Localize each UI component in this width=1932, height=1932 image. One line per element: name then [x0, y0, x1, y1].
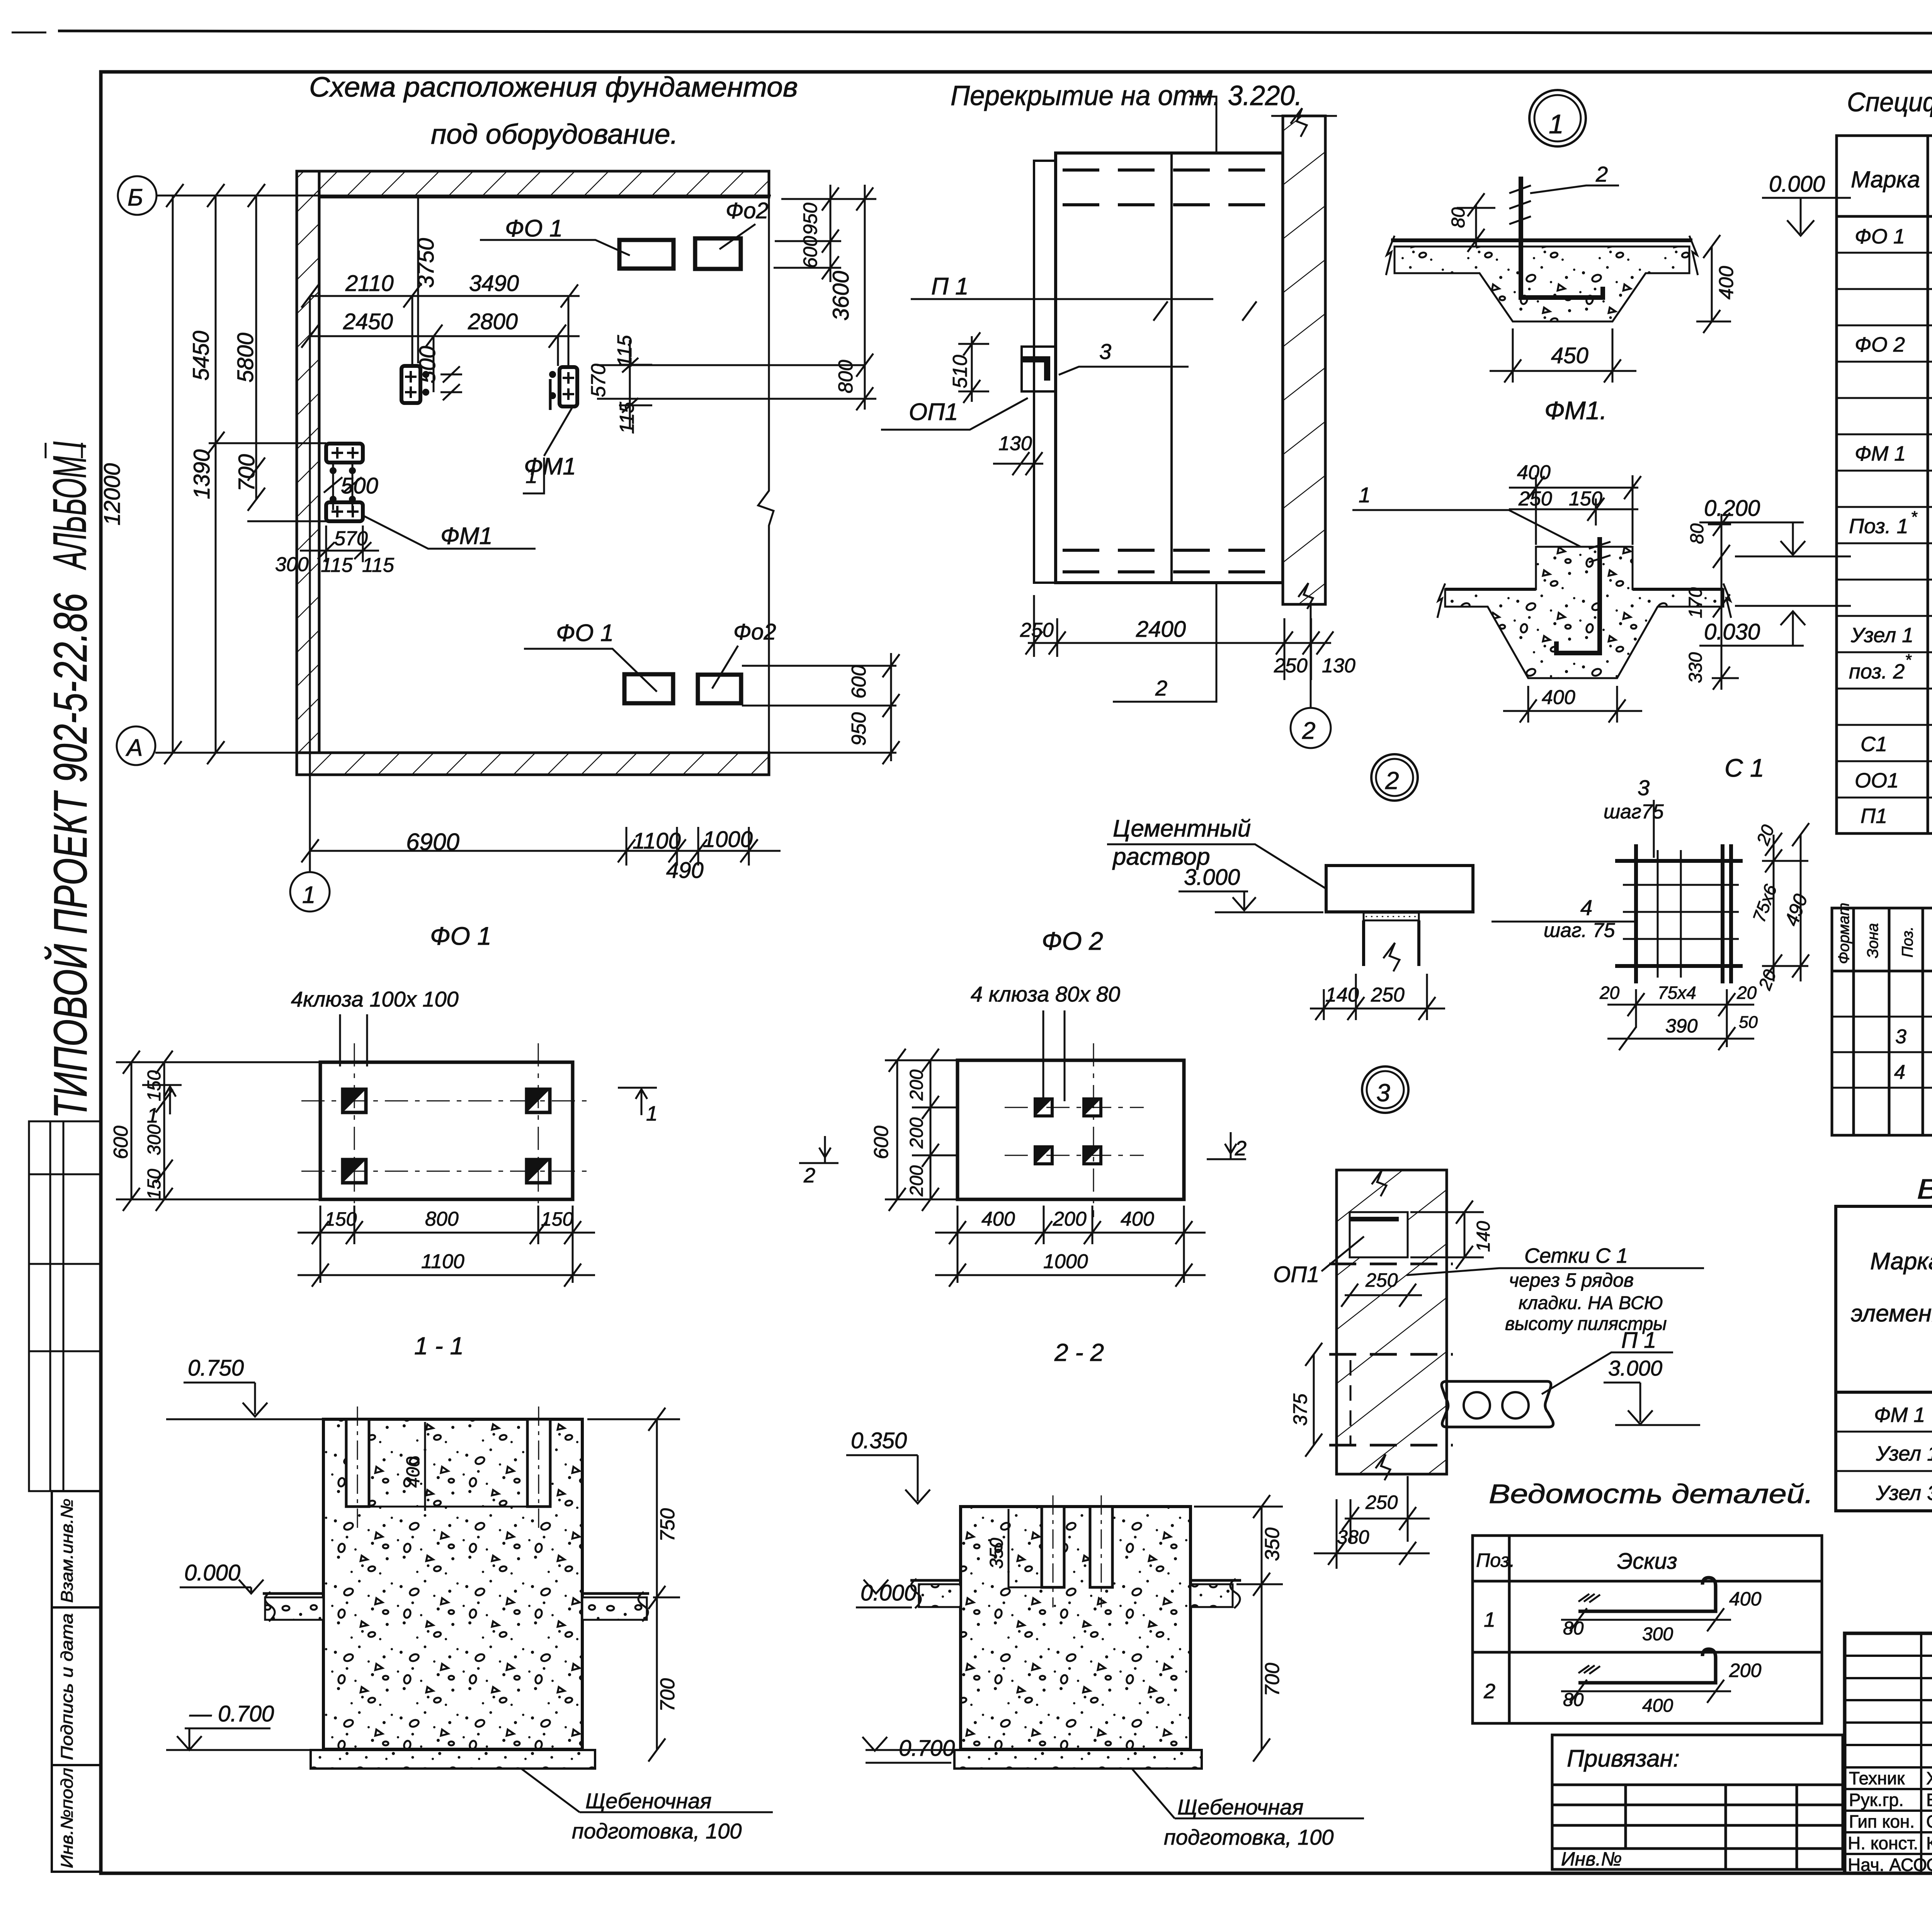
- svg-text:ОП1: ОП1: [909, 399, 958, 425]
- svg-text:Сетки С 1: Сетки С 1: [1524, 1244, 1628, 1267]
- svg-text:140: 140: [1473, 1221, 1494, 1252]
- svg-text:1390: 1390: [189, 449, 214, 499]
- svg-text:950: 950: [799, 202, 821, 235]
- svg-text:400: 400: [1642, 1696, 1673, 1716]
- svg-text:Гип кон.: Гип кон.: [1849, 1811, 1915, 1832]
- dim line 2450/2800: [301, 325, 580, 348]
- svg-text:400: 400: [1542, 686, 1575, 709]
- svg-text:1: 1: [1549, 109, 1564, 139]
- dashed mesh lines in wall: [1329, 1264, 1453, 1445]
- svg-text:2: 2: [1385, 767, 1399, 794]
- svg-text:ТИПОВОЙ ПРОЕКТ 902-5-22.86: ТИПОВОЙ ПРОЕКТ 902-5-22.86: [44, 593, 97, 1119]
- svg-text:300: 300: [1642, 1624, 1673, 1645]
- svg-text:Марка: Марка: [1851, 167, 1920, 192]
- svg-text:Техник: Техник: [1849, 1768, 1905, 1788]
- svg-text:С 1: С 1: [1725, 753, 1764, 782]
- svg-text:20: 20: [1736, 983, 1757, 1003]
- svg-text:0.030: 0.030: [1704, 619, 1760, 645]
- svg-text:375: 375: [1289, 1393, 1311, 1426]
- svg-text:400: 400: [1729, 1588, 1762, 1610]
- svg-text:250: 250: [1274, 655, 1308, 677]
- svg-text:150: 150: [144, 1070, 165, 1101]
- svg-text:Формат: Формат: [1835, 903, 1852, 964]
- concrete body 2-2: [961, 1507, 1190, 1749]
- svg-text:1: 1: [1484, 1608, 1495, 1631]
- svg-text:Нач. АСО: Нач. АСО: [1848, 1855, 1927, 1875]
- FM1 block E: [326, 444, 363, 463]
- dims left 600 200 200 200: [885, 1049, 958, 1211]
- svg-text:600: 600: [110, 1126, 132, 1159]
- svg-text:400: 400: [1715, 266, 1738, 299]
- svg-text:200: 200: [906, 1165, 927, 1197]
- dim 500 near FM1: [433, 336, 435, 392]
- svg-text:450: 450: [1551, 343, 1588, 368]
- svg-text:Цементный: Цементный: [1113, 815, 1251, 842]
- svg-text:600: 600: [870, 1126, 893, 1159]
- section trace near D: [549, 379, 552, 410]
- svg-text:ФО 1: ФО 1: [430, 922, 492, 950]
- section 2 mark bottom: [1113, 583, 1216, 702]
- svg-text:50: 50: [1739, 1013, 1758, 1032]
- dims left 600 150 300 150: [116, 1051, 321, 1211]
- svg-text:— 0.700: — 0.700: [870, 1736, 955, 1761]
- svg-text:ФМ1: ФМ1: [440, 523, 493, 549]
- svg-text:Рук.гр.: Рук.гр.: [1849, 1790, 1904, 1810]
- svg-text:250: 250: [1365, 1492, 1398, 1513]
- rebar pos1: [1556, 537, 1600, 653]
- svg-text:Ведомость деталей.: Ведомость деталей.: [1489, 1479, 1813, 1509]
- svg-text:Поз.: Поз.: [1476, 1549, 1515, 1571]
- svg-text:Зона: Зона: [1864, 923, 1881, 958]
- panel left strip: [1034, 161, 1056, 583]
- svg-text:115: 115: [616, 401, 638, 434]
- svg-text:Обух: Обух: [1926, 1811, 1932, 1832]
- svg-text:250: 250: [1365, 1269, 1398, 1291]
- node2 floor lines: [1445, 588, 1536, 591]
- svg-text:250: 250: [1371, 984, 1405, 1006]
- svg-text:ФО 2: ФО 2: [1042, 927, 1103, 955]
- bottom dim line 250 2400: [1026, 595, 1333, 680]
- svg-text:3: 3: [1376, 1079, 1390, 1107]
- svg-text:200: 200: [906, 1117, 927, 1149]
- spec2 grid: [1832, 908, 1932, 1135]
- pilaster wall hatched: [1337, 1170, 1447, 1474]
- node1 slab top thick line: [1391, 238, 1692, 242]
- svg-text:— 0.700: — 0.700: [189, 1701, 274, 1726]
- svg-text:700: 700: [234, 454, 259, 492]
- svg-text:подготовка, 100: подготовка, 100: [1164, 1825, 1334, 1849]
- axis A line: [155, 752, 896, 754]
- sketch pos2 hook bar: [1561, 1649, 1731, 1703]
- svg-text:115: 115: [362, 554, 395, 577]
- bolt slots 2-2: [1042, 1507, 1064, 1587]
- svg-text:250: 250: [1518, 488, 1552, 510]
- svg-text:3750: 3750: [413, 238, 439, 288]
- svg-text:поз. 2: поз. 2: [1849, 660, 1905, 683]
- svg-text:0.000: 0.000: [1769, 172, 1825, 197]
- dims bottom 400 200 400 1000: [935, 1206, 1206, 1287]
- center dash lines: [1005, 1043, 1144, 1217]
- svg-text:600: 600: [848, 665, 870, 699]
- svg-text:Фо2: Фо2: [726, 198, 769, 223]
- wall band right hatched: [1283, 116, 1325, 604]
- svg-text:700: 700: [656, 1678, 679, 1712]
- svg-text:950: 950: [848, 712, 870, 746]
- gravel bed 2-2: [954, 1750, 1202, 1769]
- svg-text:ФО 1: ФО 1: [1855, 225, 1905, 248]
- svg-text:Булатова: Булатова: [1926, 1790, 1932, 1810]
- svg-text:ФМ 1: ФМ 1: [1855, 442, 1906, 465]
- svg-text:0.750: 0.750: [188, 1355, 244, 1381]
- P1 panel section: [1442, 1381, 1553, 1427]
- svg-text:1100: 1100: [633, 828, 681, 854]
- node 1 circle: [1529, 90, 1586, 146]
- spec table grid: [1837, 136, 1932, 833]
- klyuza squares FO2: [1035, 1099, 1101, 1164]
- svg-text:570: 570: [587, 364, 610, 397]
- svg-text:ФМ1.: ФМ1.: [1544, 396, 1607, 425]
- left margin upper table: [29, 1121, 101, 1491]
- svg-text:Узел 1: Узел 1: [1876, 1442, 1932, 1465]
- floor strips: [263, 1592, 649, 1621]
- FM1 block D: [560, 367, 577, 406]
- extension lines to 800 dim: [597, 364, 865, 366]
- svg-text:2800: 2800: [468, 309, 518, 334]
- dim 3750 vertical: [417, 196, 419, 363]
- svg-text:Узел 1: Узел 1: [1850, 624, 1913, 647]
- right dim 3600/800: [856, 185, 873, 410]
- FO2 plan rect: [957, 1060, 1184, 1199]
- axis circle 1: [290, 872, 330, 912]
- pier neck: [1364, 920, 1419, 966]
- svg-text:ОП1: ОП1: [1273, 1262, 1319, 1287]
- dim 140 250 below: [1310, 974, 1445, 1020]
- svg-text:АЛЬБОМ I: АЛЬБОМ I: [43, 441, 96, 570]
- svg-text:750: 750: [656, 1508, 679, 1542]
- dashed pilaster outline: [1350, 1360, 1352, 1445]
- svg-text:800: 800: [425, 1208, 459, 1230]
- svg-text:80: 80: [1448, 207, 1469, 228]
- svg-text:1: 1: [1359, 483, 1371, 507]
- svg-text:Узел 3: Узел 3: [1876, 1481, 1932, 1505]
- svg-text:0.350: 0.350: [851, 1428, 907, 1453]
- left dim verticals: [164, 184, 326, 764]
- svg-text:Эскиз: Эскиз: [1617, 1549, 1677, 1574]
- left sub columns: [1845, 1633, 1932, 1873]
- svg-text:С1: С1: [1861, 733, 1887, 756]
- svg-text:3.000: 3.000: [1608, 1356, 1662, 1380]
- svg-text:150: 150: [144, 1169, 165, 1200]
- node circle 2 detail: [1371, 754, 1418, 801]
- svg-text:500: 500: [341, 473, 378, 498]
- panel P1 outline: [1056, 153, 1283, 583]
- dim 400 bottom: [1503, 686, 1642, 723]
- title block outer: [1845, 1633, 1932, 1873]
- svg-text:Б: Б: [128, 184, 143, 211]
- svg-text:Ведомость расхода стали на: Ведомость расхода стали на элемент, кг.: [1917, 1174, 1932, 1205]
- svg-text:2110: 2110: [345, 271, 394, 296]
- sheet top border: [58, 31, 1932, 34]
- gravel bed 1-1: [311, 1750, 595, 1769]
- svg-text:330: 330: [1685, 652, 1706, 683]
- node1 slab concrete: [1395, 247, 1689, 321]
- signature labels: [1848, 1768, 1932, 1875]
- svg-text:П1: П1: [1861, 804, 1887, 828]
- breaks: [1437, 583, 1445, 618]
- svg-text:350: 350: [986, 1538, 1007, 1569]
- dim 375: [1313, 1354, 1315, 1445]
- axis line to circle 2: [1310, 604, 1312, 708]
- svg-text:4: 4: [1894, 1061, 1905, 1083]
- svg-text:1000: 1000: [703, 827, 753, 852]
- svg-text:Хвостова: Хвостова: [1926, 1768, 1932, 1788]
- svg-text:Поз.: Поз.: [1899, 927, 1916, 958]
- svg-text:3600: 3600: [828, 271, 854, 321]
- axis vertical 1: [309, 296, 311, 872]
- svg-text:130: 130: [998, 432, 1032, 455]
- svg-text:170: 170: [1685, 587, 1706, 618]
- svg-text:через 5 рядов: через 5 рядов: [1509, 1269, 1634, 1291]
- svg-text:А: А: [125, 735, 143, 761]
- dim line 2110/3490: [301, 284, 580, 308]
- dim 400 slots: [424, 1422, 426, 1511]
- svg-text:Поз. 1: Поз. 1: [1849, 515, 1908, 538]
- svg-text:1000: 1000: [1043, 1250, 1088, 1273]
- section mark 1 lower: [523, 457, 544, 493]
- svg-text:6900: 6900: [406, 829, 459, 855]
- svg-text:300: 300: [275, 553, 309, 576]
- svg-text:шаг. 75: шаг. 75: [1544, 919, 1616, 942]
- svg-text:*: *: [1905, 651, 1912, 669]
- svg-text:3490: 3490: [469, 271, 519, 296]
- dim 350 slots: [1008, 1509, 1010, 1588]
- bottom dim line 6900: [301, 827, 781, 866]
- svg-text:2: 2: [1302, 718, 1315, 744]
- svg-text:2: 2: [1483, 1680, 1495, 1703]
- wall break marks: [1372, 1170, 1386, 1196]
- svg-text:4: 4: [1580, 895, 1592, 920]
- right dims 750 700: [587, 1408, 680, 1762]
- svg-text:800: 800: [835, 360, 857, 393]
- svg-text:2450: 2450: [343, 309, 393, 334]
- svg-text:3.000: 3.000: [1184, 865, 1240, 890]
- lower right dims 600 950: [742, 653, 900, 764]
- svg-text:2: 2: [1155, 676, 1167, 700]
- section 2 arrows: [799, 1132, 1246, 1163]
- svg-text:2: 2: [1595, 162, 1608, 186]
- svg-text:490: 490: [666, 858, 704, 883]
- section 2 mark top: [1189, 97, 1216, 153]
- svg-text:1: 1: [147, 1104, 158, 1127]
- svg-text:Привязан:: Привязан:: [1567, 1745, 1680, 1772]
- svg-text:Сорокин: Сорокин: [1926, 1855, 1932, 1875]
- svg-text:4 клюза 80х 80: 4 клюза 80х 80: [971, 982, 1120, 1006]
- svg-text:80: 80: [1687, 523, 1708, 544]
- wall break bottom: [1298, 583, 1313, 609]
- svg-text:ОО1: ОО1: [1855, 769, 1899, 792]
- steel grid: [1836, 1206, 1932, 1511]
- cement detail slab: [1326, 866, 1473, 912]
- svg-text:Фо2: Фо2: [733, 619, 776, 645]
- svg-text:510: 510: [949, 355, 971, 388]
- node2 concrete body: [1445, 547, 1723, 678]
- svg-text:2: 2: [1235, 1137, 1247, 1160]
- svg-text:250: 250: [1020, 619, 1054, 641]
- axis B line: [156, 195, 771, 197]
- svg-text:Щебеночная: Щебеночная: [585, 1789, 711, 1813]
- dim 400 right: [1711, 247, 1713, 321]
- wall bottom band hatched: [297, 753, 769, 775]
- svg-text:кладки. НА ВСЮ: кладки. НА ВСЮ: [1519, 1293, 1663, 1313]
- svg-text:Взам.инв.№: Взам.инв.№: [58, 1498, 77, 1603]
- mesh dims right: [1762, 823, 1809, 981]
- svg-text:3: 3: [1099, 339, 1111, 364]
- svg-text:390: 390: [1665, 1015, 1698, 1037]
- steel data rows: [1874, 1398, 1932, 1505]
- right dims 350 700: [1194, 1495, 1283, 1762]
- mesh C1 drawing: [1615, 844, 1743, 983]
- axis circle 2: [1291, 708, 1331, 748]
- FO1 plan rect: [320, 1062, 573, 1199]
- svg-text:Щебеночная: Щебеночная: [1177, 1795, 1303, 1819]
- panel center seam: [1170, 153, 1173, 583]
- svg-text:300: 300: [144, 1124, 165, 1155]
- vedomost table: [1473, 1536, 1822, 1723]
- dim 450 bottom: [1490, 328, 1636, 383]
- svg-text:П 1: П 1: [931, 273, 969, 300]
- svg-text:2 - 2: 2 - 2: [1054, 1338, 1104, 1366]
- svg-text:700: 700: [1261, 1663, 1284, 1696]
- foundation FO2 upper: [695, 238, 741, 269]
- svg-text:400: 400: [981, 1208, 1015, 1230]
- svg-text:350: 350: [1261, 1527, 1284, 1561]
- svg-text:Инв.№: Инв.№: [1561, 1848, 1622, 1870]
- dims bottom 150 800 150 1100: [298, 1206, 595, 1287]
- svg-text:20: 20: [1599, 983, 1620, 1003]
- OP1 support detail: [1022, 347, 1056, 391]
- svg-text:Марка: Марка: [1870, 1248, 1932, 1275]
- svg-text:400: 400: [1121, 1208, 1154, 1230]
- foundation FO1 upper: [619, 240, 673, 269]
- svg-text:115: 115: [321, 554, 353, 577]
- dashed lines bottom: [1063, 549, 1279, 552]
- rebar pos2 in node1: [1521, 177, 1603, 298]
- svg-text:под оборудование.: под оборудование.: [431, 119, 678, 150]
- privyazan table: [1552, 1735, 1843, 1869]
- node circle 3: [1362, 1066, 1408, 1113]
- bolt slots: [346, 1419, 369, 1507]
- svg-text:4клюза 100х 100: 4клюза 100х 100: [291, 987, 459, 1011]
- svg-text:*: *: [1911, 508, 1918, 526]
- FM1 block C: [401, 366, 420, 403]
- svg-text:П 1: П 1: [1621, 1328, 1656, 1353]
- plan right cut line: [758, 171, 774, 775]
- col1 marks: [1849, 225, 1913, 828]
- svg-text:ФО 1: ФО 1: [556, 620, 614, 646]
- foundation FO1 lower: [624, 674, 673, 703]
- svg-text:600: 600: [799, 236, 821, 268]
- svg-text:150: 150: [1569, 488, 1602, 510]
- svg-text:Ковалинина: Ковалинина: [1926, 1833, 1932, 1853]
- svg-text:ФМ 1: ФМ 1: [1874, 1403, 1925, 1427]
- svg-text:200: 200: [1729, 1660, 1762, 1681]
- svg-text:1: 1: [302, 882, 315, 908]
- section 1 arrows: [142, 1085, 657, 1115]
- svg-text:0.200: 0.200: [1704, 496, 1760, 521]
- svg-text:12000: 12000: [100, 463, 125, 526]
- svg-text:0.000: 0.000: [184, 1560, 240, 1585]
- svg-text:80: 80: [1563, 1690, 1584, 1710]
- slab left break: [1386, 236, 1395, 275]
- svg-text:5450: 5450: [189, 331, 214, 381]
- svg-text:80: 80: [1563, 1618, 1584, 1639]
- left margin stamp cells: [52, 1491, 101, 1872]
- floor strips 2-2: [910, 1579, 1241, 1608]
- svg-text:Схема расположения фундамент: Схема расположения фундаментов: [309, 72, 798, 103]
- axis circle B: [118, 176, 156, 215]
- svg-text:3: 3: [1895, 1026, 1906, 1048]
- svg-text:Спецификация к схеме расположе: Спецификация к схеме расположенной на да…: [1847, 87, 1932, 117]
- svg-text:Н. конст.: Н. конст.: [1848, 1833, 1918, 1853]
- svg-text:Инв.№подл: Инв.№подл: [58, 1768, 77, 1868]
- dashed lines top: [1063, 168, 1279, 172]
- dims 80 170 330 right: [1708, 513, 1739, 690]
- svg-text:ФО 2: ФО 2: [1855, 333, 1905, 356]
- svg-text:1100: 1100: [421, 1250, 464, 1273]
- axis circle A: [117, 726, 155, 765]
- svg-text:5800: 5800: [233, 333, 258, 383]
- wall top band hatched: [297, 171, 769, 197]
- sketch pos1 hook bar: [1561, 1578, 1731, 1631]
- svg-text:ФО 1: ФО 1: [505, 215, 563, 242]
- FM1 block F: [326, 502, 363, 521]
- svg-text:150: 150: [541, 1208, 573, 1230]
- svg-text:Перекрытие на отм. 3.220.: Перекрытие на отм. 3.220.: [951, 80, 1302, 111]
- center dash lines: [301, 1043, 591, 1217]
- right dims 950 600: [774, 185, 876, 282]
- svg-text:130: 130: [1322, 655, 1355, 677]
- svg-text:1 - 1: 1 - 1: [414, 1332, 464, 1360]
- svg-text:400: 400: [403, 1457, 423, 1488]
- wall break top: [1291, 108, 1307, 137]
- svg-text:шаг75: шаг75: [1604, 801, 1664, 823]
- dim 140: [1464, 1212, 1466, 1257]
- klyuza squares: [343, 1089, 550, 1183]
- wall left band hatched: [297, 171, 319, 775]
- svg-text:Подпись и дата: Подпись и дата: [58, 1613, 77, 1760]
- svg-text:150: 150: [325, 1208, 357, 1230]
- svg-text:элемента: элемента: [1851, 1300, 1932, 1327]
- mortar joint dotted: [1364, 913, 1419, 920]
- svg-text:200: 200: [1053, 1208, 1087, 1230]
- OP1 seat notch: [1350, 1212, 1408, 1257]
- wall top edge line: [1271, 115, 1337, 117]
- svg-text:1: 1: [646, 1102, 658, 1125]
- svg-text:подготовка, 100: подготовка, 100: [572, 1819, 742, 1843]
- mesh dims bottom: [1607, 989, 1754, 1050]
- svg-text:140: 140: [1325, 984, 1359, 1006]
- svg-text:ФМ1: ФМ1: [524, 453, 576, 480]
- svg-text:200: 200: [906, 1070, 927, 1101]
- concrete body 1-1: [323, 1419, 582, 1749]
- svg-text:75х4: 75х4: [1658, 983, 1696, 1003]
- foundation FO2 lower: [698, 675, 741, 703]
- svg-text:2400: 2400: [1136, 617, 1186, 642]
- svg-text:2: 2: [803, 1164, 815, 1187]
- slab right break: [1689, 236, 1698, 275]
- svg-text:3: 3: [1638, 776, 1650, 800]
- dim 510: [971, 336, 973, 402]
